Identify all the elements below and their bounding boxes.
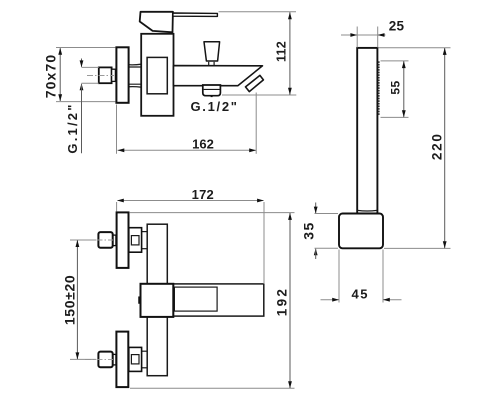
lever cartridge block: [140, 12, 173, 33]
dim 55 arrow up: [402, 61, 406, 68]
body block (plan): [141, 284, 174, 317]
dim 35 arrow down: [314, 207, 318, 214]
G.1/2 callout connector top: [82, 66, 99, 68]
dim 172 arrow right: [257, 199, 264, 203]
bottom inlet connector: [113, 354, 116, 365]
svg-text:192: 192: [275, 287, 290, 316]
flange curve bottom: [118, 87, 142, 88]
dim 70x70 arrow down: [58, 94, 62, 101]
spout tube: [174, 66, 263, 86]
dim 25 arrow right-point: [350, 33, 357, 37]
bottom wall flange (plan): [116, 332, 128, 388]
svg-text:70x70: 70x70: [42, 54, 58, 98]
dim 45 line right tail: [383, 299, 402, 301]
aerator ring line: [204, 88, 220, 90]
top inlet centerline: [85, 239, 113, 241]
inlet centerline: [87, 75, 114, 77]
dim 25 ext right: [377, 27, 379, 48]
G.1/2 callout arrow up: [80, 83, 84, 90]
dim 55 arrow down: [402, 110, 406, 117]
diverter stem: [208, 62, 210, 66]
dim 162 line: [118, 149, 257, 151]
dim 112 ext bottom: [222, 94, 296, 96]
supply stem top edge: [129, 66, 147, 68]
G.1/2 callout connector bottom: [82, 82, 99, 84]
mixer body: [141, 34, 173, 116]
flange curve top: [118, 63, 142, 64]
G.1/2 callout shaft lower: [81, 84, 83, 153]
dim 25 ext left: [356, 27, 358, 48]
svg-text:G.1/2": G.1/2": [191, 99, 239, 114]
dim 35 shaft upper: [315, 203, 317, 214]
top inlet adapter window: [131, 236, 139, 245]
dim 192 ext bottom: [130, 387, 295, 389]
dim 220 ext top: [379, 47, 451, 49]
svg-text:45: 45: [351, 286, 369, 301]
dim 220 arrow up: [443, 48, 447, 55]
handle joint line: [357, 209, 377, 212]
top inlet adapter: [129, 228, 142, 253]
bottom inlet cap nut: [98, 352, 112, 368]
dim 112 ext top: [219, 11, 297, 13]
dim 192 ext top: [129, 212, 294, 214]
dim 172 line: [118, 200, 264, 202]
dim 162 ext left: [116, 105, 118, 154]
bottom inlet adapter window: [131, 355, 139, 364]
dim 112 arrow up: [288, 12, 292, 19]
shower handle tube: [357, 48, 377, 214]
dim 25 line: [341, 34, 386, 36]
dim 45 arrow left-point: [383, 298, 390, 302]
dim 70x70 ext top: [56, 47, 116, 49]
dim 150+-20 arrow down: [76, 352, 80, 359]
dim 45 ext right: [382, 250, 384, 303]
dim 220 arrow down: [443, 241, 447, 248]
dim 35 ext bottom: [315, 247, 339, 249]
diverter knob: [204, 42, 220, 61]
svg-text:150±20: 150±20: [62, 275, 78, 326]
dim 45 arrow right-point: [332, 298, 339, 302]
svg-text:112: 112: [274, 41, 288, 62]
dim 162 ext right: [255, 93, 257, 154]
dim 172 arrow left: [117, 199, 124, 203]
dim 150+-20 ext top: [70, 239, 96, 241]
aerator body: [203, 85, 221, 96]
top inlet cap nut: [98, 232, 112, 248]
body left bump: [139, 297, 142, 303]
spout mouthpiece: [246, 75, 264, 91]
svg-text:35: 35: [300, 221, 316, 240]
dim 172 ext left: [116, 202, 118, 212]
dim 192 arrow up: [288, 213, 292, 220]
dim 35 shaft lower: [315, 249, 317, 259]
top wall flange (plan): [117, 212, 129, 268]
dim 192 line: [289, 213, 291, 388]
aerator nub: [211, 96, 213, 97]
top inlet connector: [113, 235, 116, 246]
dim 55 ext top: [381, 60, 409, 62]
supply stem bottom edge: [129, 83, 147, 85]
bottom inlet centerline: [85, 358, 113, 360]
svg-text:25: 25: [389, 18, 405, 33]
dim 35 arrow up: [314, 248, 318, 255]
dim 25 arrow left-point: [378, 33, 385, 37]
dim 220 line: [444, 48, 446, 248]
dim 112 arrow down: [288, 88, 292, 95]
dim 55 line: [403, 61, 405, 117]
svg-text:G.1/2": G.1/2": [65, 102, 80, 153]
dim 192 arrow down: [288, 381, 292, 388]
svg-text:220: 220: [429, 132, 444, 160]
nut collar: [112, 69, 116, 81]
handle plate (plan): [173, 284, 263, 316]
dim 70x70 line: [59, 48, 61, 101]
dim 112 line: [289, 12, 291, 95]
G.1/2 callout shaft upper: [81, 59, 83, 67]
dim 150+-20 line: [76, 240, 78, 359]
mounting column: [147, 224, 167, 376]
body escutcheon inner plate: [147, 57, 167, 93]
dim 70x70 ext bottom: [56, 101, 116, 103]
dim 162 arrow right: [249, 148, 256, 152]
bottom inlet step neck: [142, 350, 148, 352]
svg-text:162: 162: [192, 136, 214, 151]
dim 55 ext bottom: [381, 116, 409, 118]
dim 220 ext bottom: [384, 247, 451, 249]
svg-text:172: 172: [192, 187, 214, 202]
dim 45 ext left: [338, 250, 340, 303]
shower bracket base: [339, 214, 383, 249]
wall flange (side view): [116, 47, 128, 103]
bottom inlet adapter: [129, 347, 142, 371]
dim 45 line left tail: [321, 299, 340, 301]
dim 35 ext top: [315, 213, 339, 215]
G.1/2 callout arrow down: [80, 60, 84, 67]
handle plate inner rect: [174, 287, 217, 311]
svg-text:55: 55: [389, 80, 403, 94]
dim 172 ext right: [263, 202, 265, 284]
spray nozzle dots: [378, 61, 380, 115]
dim 162 arrow left: [118, 148, 125, 152]
lever handle bar: [173, 13, 218, 16]
connection nut: [99, 67, 112, 83]
dim 150+-20 arrow up: [76, 240, 80, 247]
dim 70x70 arrow up: [58, 48, 62, 55]
dim 150+-20 ext bottom: [70, 358, 96, 360]
top inlet step neck: [142, 231, 148, 233]
